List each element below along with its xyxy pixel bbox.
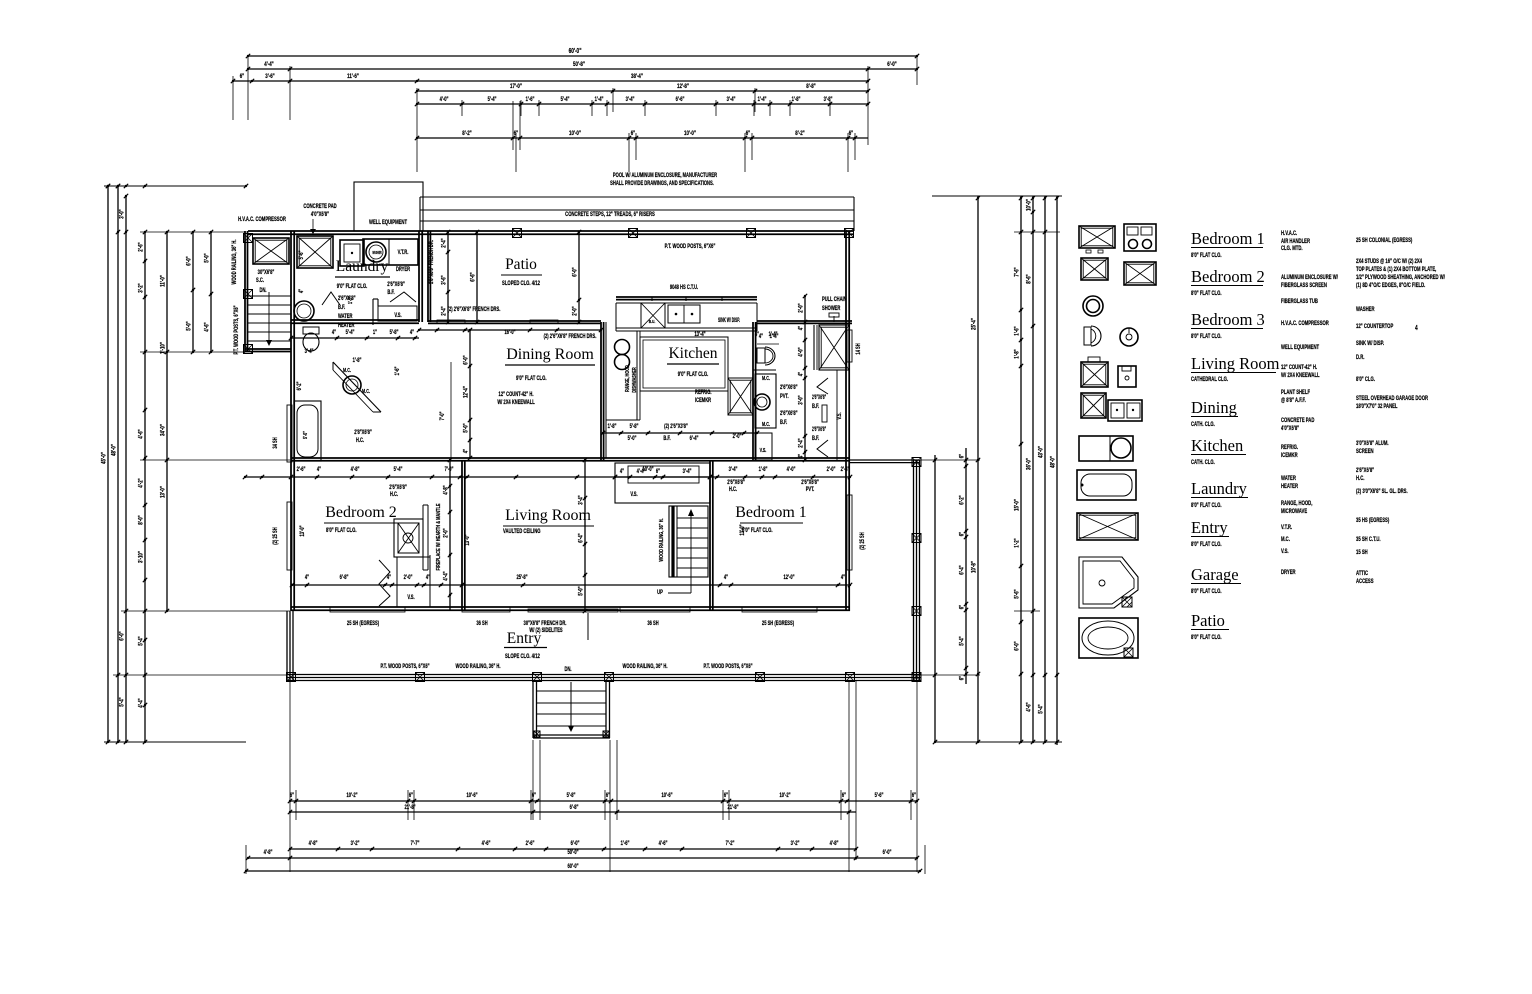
svg-text:6": 6" — [240, 73, 245, 80]
svg-text:2'-4": 2'-4" — [441, 238, 448, 248]
svg-text:Bedroom 1: Bedroom 1 — [1191, 229, 1265, 248]
svg-text:(2) 3'0"X6'8" SL. GL. DRS.: (2) 3'0"X6'8" SL. GL. DRS. — [1356, 488, 1408, 495]
svg-text:Dining Room: Dining Room — [506, 346, 594, 363]
svg-text:12" COUNTERTOP: 12" COUNTERTOP — [1356, 323, 1394, 330]
svg-text:V.S.: V.S. — [394, 312, 402, 319]
svg-text:Entry: Entry — [1191, 518, 1228, 537]
svg-text:B.F.: B.F. — [812, 435, 820, 442]
svg-text:3'-4": 3'-4" — [578, 495, 585, 505]
svg-text:4'0"X6'8": 4'0"X6'8" — [311, 211, 330, 218]
svg-text:1'-6": 1'-6" — [394, 366, 401, 375]
svg-text:H.C.: H.C. — [356, 437, 365, 444]
svg-text:Laundry: Laundry — [336, 258, 389, 275]
svg-text:(1) 8D 4"O/C EDGES, 8"O/C FIEL: (1) 8D 4"O/C EDGES, 8"O/C FIELD. — [1356, 282, 1426, 289]
svg-text:RANGE, HOOD,: RANGE, HOOD, — [624, 364, 630, 392]
svg-text:4'-4": 4'-4" — [443, 571, 450, 581]
svg-text:6": 6" — [724, 792, 729, 799]
svg-text:6": 6" — [606, 792, 611, 799]
svg-text:V.S.: V.S. — [407, 594, 415, 601]
svg-text:4'-6": 4'-6" — [659, 840, 668, 847]
svg-text:ALUMINUM ENCLOSURE W/: ALUMINUM ENCLOSURE W/ — [1281, 274, 1338, 281]
svg-text:45'-0": 45'-0" — [101, 452, 108, 464]
svg-text:3'-2": 3'-2" — [791, 840, 800, 847]
svg-text:6": 6" — [959, 675, 966, 680]
svg-text:Kitchen: Kitchen — [1191, 436, 1243, 455]
svg-text:PVT.: PVT. — [780, 393, 789, 400]
svg-text:V.S.: V.S. — [630, 491, 638, 498]
svg-text:5'-4": 5'-4" — [488, 96, 497, 103]
svg-text:6'-0": 6'-0" — [1014, 641, 1021, 651]
svg-text:3'-6": 3'-6" — [441, 275, 448, 285]
svg-text:B.F.: B.F. — [812, 403, 820, 410]
svg-text:ATTIC: ATTIC — [1356, 570, 1368, 577]
svg-text:5'-4": 5'-4" — [394, 466, 403, 473]
svg-text:H.C.: H.C. — [390, 491, 399, 498]
svg-text:2'-4": 2'-4" — [798, 438, 805, 448]
svg-text:2'-4": 2'-4" — [441, 306, 448, 316]
svg-text:6": 6" — [631, 130, 636, 137]
svg-text:3'-4": 3'-4" — [305, 348, 314, 355]
svg-text:M.C.: M.C. — [1281, 536, 1290, 543]
svg-text:B.U.: B.U. — [649, 318, 656, 324]
svg-text:AIR HANDLER: AIR HANDLER — [1281, 238, 1310, 245]
svg-text:6'-2": 6'-2" — [296, 381, 303, 390]
svg-text:8'0" FLAT CLG.: 8'0" FLAT CLG. — [1191, 290, 1222, 297]
svg-text:7'-6": 7'-6" — [1014, 267, 1021, 277]
svg-text:6'-0": 6'-0" — [887, 61, 897, 68]
svg-text:6": 6" — [532, 792, 537, 799]
svg-text:1'-8": 1'-8" — [353, 357, 362, 364]
svg-text:10'-2": 10'-2" — [346, 792, 358, 799]
svg-text:Kitchen: Kitchen — [668, 345, 717, 362]
svg-text:Patio: Patio — [1191, 611, 1225, 630]
svg-text:4'-6": 4'-6" — [482, 840, 491, 847]
svg-text:60'-0": 60'-0" — [569, 48, 582, 55]
svg-text:3'0"X6'8" ALUM.: 3'0"X6'8" ALUM. — [1356, 440, 1389, 447]
svg-text:3'-0": 3'-0" — [798, 395, 805, 405]
svg-text:ICEMKR: ICEMKR — [695, 397, 711, 404]
svg-text:S.C.: S.C. — [256, 277, 264, 284]
svg-text:B.F.: B.F. — [780, 419, 788, 426]
svg-text:4": 4" — [841, 574, 846, 581]
svg-text:3'-4": 3'-4" — [727, 96, 736, 103]
svg-text:P.T. WOOD POSTS, 6"X6": P.T. WOOD POSTS, 6"X6" — [703, 663, 753, 670]
svg-text:5'-4": 5'-4" — [346, 329, 355, 336]
svg-text:2'6"X6'8": 2'6"X6'8" — [1356, 467, 1375, 474]
svg-text:8'0" FLAT CLG.: 8'0" FLAT CLG. — [1191, 541, 1222, 548]
svg-text:WELL EQUIPMENT: WELL EQUIPMENT — [1281, 344, 1320, 351]
svg-text:35 SH C.T.U.: 35 SH C.T.U. — [1356, 536, 1381, 543]
svg-text:25 SH (EGRESS): 25 SH (EGRESS) — [762, 620, 794, 627]
svg-text:1'-6": 1'-6" — [526, 96, 535, 103]
svg-text:43'-0": 43'-0" — [1038, 446, 1045, 458]
svg-text:TOP PLATES & (1) 2X4 BOTTOM PL: TOP PLATES & (1) 2X4 BOTTOM PLATE, — [1356, 266, 1437, 273]
svg-text:SHALL PROVIDE DRAWINGS, AND SP: SHALL PROVIDE DRAWINGS, AND SPECIFICATIO… — [610, 180, 714, 187]
svg-text:2'6"X6'8": 2'6"X6'8" — [801, 479, 819, 486]
svg-text:16'-0": 16'-0" — [504, 329, 516, 336]
svg-text:H.V.A.C.: H.V.A.C. — [1281, 230, 1298, 237]
svg-text:6": 6" — [959, 531, 966, 536]
svg-text:8'-0": 8'-0" — [138, 515, 145, 525]
svg-text:H.C.: H.C. — [1356, 475, 1365, 482]
svg-text:5'-6": 5'-6" — [875, 792, 884, 799]
svg-text:2X4 STUDS @ 16" O/C W/ (2) 2X4: 2X4 STUDS @ 16" O/C W/ (2) 2X4 — [1356, 258, 1422, 265]
svg-text:D.R.: D.R. — [1356, 354, 1365, 361]
svg-text:2'6"X6'8": 2'6"X6'8" — [727, 479, 745, 486]
svg-text:3'-8": 3'-8" — [824, 96, 833, 103]
svg-text:2'-6": 2'-6" — [138, 242, 145, 252]
svg-text:25'-4": 25'-4" — [971, 318, 978, 330]
svg-text:12'-4": 12'-4" — [463, 386, 470, 398]
svg-text:34 SH: 34 SH — [272, 437, 279, 449]
svg-text:6": 6" — [842, 792, 847, 799]
svg-text:V.S.: V.S. — [760, 447, 767, 453]
svg-text:CONCRETE PAD: CONCRETE PAD — [1281, 417, 1315, 424]
svg-text:4'-8": 4'-8" — [351, 466, 360, 473]
svg-text:6": 6" — [959, 604, 966, 609]
svg-text:1'-8": 1'-8" — [792, 96, 801, 103]
svg-text:36 SH: 36 SH — [647, 620, 659, 627]
svg-text:V.T.R.: V.T.R. — [398, 249, 409, 256]
svg-text:H.V.A.C. COMPRESSOR: H.V.A.C. COMPRESSOR — [238, 216, 286, 223]
svg-text:B.F.: B.F. — [663, 435, 671, 442]
svg-text:(2) 25 SH: (2) 25 SH — [859, 532, 866, 550]
svg-text:RANGE, HOOD,: RANGE, HOOD, — [1281, 500, 1313, 507]
svg-text:ACCESS: ACCESS — [1356, 578, 1374, 585]
svg-text:4'-2": 4'-2" — [138, 478, 145, 488]
svg-text:4": 4" — [463, 448, 470, 453]
svg-text:Patio: Patio — [505, 256, 537, 273]
svg-text:6'-4": 6'-4" — [578, 533, 585, 543]
svg-text:2'6"X6'8": 2'6"X6'8" — [812, 426, 826, 433]
svg-text:3'-4": 3'-4" — [683, 468, 692, 475]
svg-text:4'-6": 4'-6" — [138, 429, 145, 439]
svg-text:6'-0": 6'-0" — [572, 267, 579, 277]
svg-text:2'-0": 2'-0" — [733, 433, 742, 440]
svg-text:10'-0": 10'-0" — [642, 466, 654, 473]
svg-text:P.T. WOOD POSTS, 6"X6": P.T. WOOD POSTS, 6"X6" — [665, 243, 716, 250]
svg-text:5'-8": 5'-8" — [630, 423, 639, 430]
svg-text:25 SH (EGRESS): 25 SH (EGRESS) — [347, 620, 379, 627]
svg-text:1'-2": 1'-2" — [1014, 538, 1021, 548]
svg-text:6": 6" — [409, 792, 414, 799]
svg-text:2'-0": 2'-0" — [798, 303, 805, 313]
svg-text:50'-0": 50'-0" — [567, 849, 579, 856]
svg-text:DRYER: DRYER — [396, 266, 410, 273]
svg-text:1'-6": 1'-6" — [1014, 326, 1021, 336]
svg-text:4": 4" — [759, 333, 764, 340]
svg-text:B.F.: B.F. — [338, 304, 346, 311]
svg-text:WELL EQUIPMENT: WELL EQUIPMENT — [369, 219, 408, 226]
svg-text:SLOPE CLG. 4/12: SLOPE CLG. 4/12 — [505, 653, 540, 660]
svg-text:6": 6" — [290, 792, 295, 799]
svg-text:2'-6": 2'-6" — [297, 466, 306, 473]
svg-text:1'-8": 1'-8" — [608, 423, 617, 430]
svg-text:STEEL OVERHEAD GARAGE DOOR: STEEL OVERHEAD GARAGE DOOR — [1356, 395, 1428, 402]
svg-text:36 SH: 36 SH — [476, 620, 488, 627]
svg-text:2'-0": 2'-0" — [404, 574, 413, 581]
svg-text:13'-0": 13'-0" — [299, 525, 306, 537]
svg-text:10'-0": 10'-0" — [569, 130, 581, 137]
svg-text:34'-0": 34'-0" — [160, 424, 167, 436]
svg-text:2'-4": 2'-4" — [841, 466, 850, 473]
svg-text:18'0"X7'0" 32 PANEL: 18'0"X7'0" 32 PANEL — [1356, 403, 1398, 410]
svg-text:Dining: Dining — [1191, 398, 1237, 417]
svg-text:9'0" FLAT CLG.: 9'0" FLAT CLG. — [516, 375, 547, 382]
svg-text:30"X6'8" FRENCH DR.: 30"X6'8" FRENCH DR. — [524, 620, 567, 627]
svg-text:5'-4": 5'-4" — [138, 636, 145, 646]
svg-text:12" COUNT-42" H.: 12" COUNT-42" H. — [499, 391, 534, 398]
svg-text:UP: UP — [657, 589, 663, 596]
svg-text:H.V.A.C. COMPRESSOR: H.V.A.C. COMPRESSOR — [1281, 320, 1329, 327]
svg-text:M.C.: M.C. — [362, 388, 370, 394]
svg-text:4'-0": 4'-0" — [787, 466, 796, 473]
svg-text:8'0" FLAT CLG.: 8'0" FLAT CLG. — [1191, 502, 1222, 509]
svg-text:4'-8": 4'-8" — [309, 840, 318, 847]
svg-text:48'-0": 48'-0" — [111, 444, 118, 456]
svg-text:10'-6": 10'-6" — [466, 792, 478, 799]
svg-text:WASHER: WASHER — [372, 250, 382, 255]
svg-text:21'-8": 21'-8" — [727, 804, 739, 811]
svg-text:4": 4" — [620, 468, 625, 475]
svg-text:4": 4" — [724, 574, 729, 581]
svg-text:2'6"X6'8": 2'6"X6'8" — [780, 410, 798, 417]
svg-text:DISHWASHER: DISHWASHER — [631, 367, 637, 393]
svg-text:5'-6": 5'-6" — [1014, 589, 1021, 599]
svg-text:2'6"X6'8": 2'6"X6'8" — [387, 281, 405, 288]
svg-text:4'-0": 4'-0" — [440, 96, 449, 103]
svg-text:12'-8": 12'-8" — [677, 83, 689, 90]
svg-text:WASHER: WASHER — [1356, 306, 1375, 313]
svg-text:6'-6": 6'-6" — [676, 96, 685, 103]
svg-text:8'-2": 8'-2" — [462, 130, 472, 137]
svg-text:6'-6": 6'-6" — [470, 272, 477, 282]
svg-text:13'-4": 13'-4" — [694, 331, 706, 338]
svg-text:5'-4": 5'-4" — [959, 636, 966, 646]
svg-text:CATHEDRAL CLG.: CATHEDRAL CLG. — [1191, 376, 1228, 383]
svg-text:50'-8": 50'-8" — [573, 61, 585, 68]
svg-text:6": 6" — [656, 468, 661, 475]
svg-text:36'-0": 36'-0" — [1026, 458, 1033, 470]
svg-text:7'-0": 7'-0" — [445, 466, 454, 473]
svg-text:WOOD RAILING, 36" H.: WOOD RAILING, 36" H. — [658, 518, 665, 562]
svg-text:MICROWAVE: MICROWAVE — [1281, 508, 1308, 515]
svg-text:DN.: DN. — [564, 666, 571, 673]
svg-text:7'-7": 7'-7" — [411, 840, 420, 847]
svg-text:4'-4": 4'-4" — [264, 61, 274, 68]
svg-text:WOOD RAILING, 36" H.: WOOD RAILING, 36" H. — [456, 663, 501, 670]
svg-text:6": 6" — [849, 130, 854, 137]
svg-text:13'-0": 13'-0" — [464, 534, 471, 546]
svg-text:SINK W/ DISP.: SINK W/ DISP. — [1356, 340, 1384, 347]
svg-text:2'6"X6'8": 2'6"X6'8" — [389, 484, 407, 491]
svg-text:2'-0": 2'-0" — [572, 306, 579, 316]
svg-text:15'-0": 15'-0" — [1014, 499, 1021, 511]
svg-text:H.C.: H.C. — [729, 486, 738, 493]
svg-text:4": 4" — [410, 329, 415, 336]
svg-text:M.C.: M.C. — [343, 367, 351, 373]
svg-text:7'-2": 7'-2" — [726, 840, 735, 847]
svg-text:8'-8": 8'-8" — [806, 83, 816, 90]
svg-text:10'-0": 10'-0" — [684, 130, 696, 137]
svg-text:9048 HS C.T.U.: 9048 HS C.T.U. — [670, 284, 699, 291]
svg-text:4": 4" — [305, 574, 310, 581]
svg-text:DN.: DN. — [259, 287, 266, 294]
svg-text:@ 8'8" A.F.F.: @ 8'8" A.F.F. — [1281, 397, 1306, 404]
svg-text:3'-2": 3'-2" — [138, 283, 145, 293]
svg-text:35 HS (EGRESS): 35 HS (EGRESS) — [1356, 517, 1389, 524]
svg-text:M.C.: M.C. — [762, 375, 770, 381]
svg-text:(2) 2'6"X6'8" FRENCH DRS.: (2) 2'6"X6'8" FRENCH DRS. — [544, 333, 597, 340]
svg-text:4": 4" — [798, 371, 805, 376]
svg-text:1/2" PLYWOOD SHEATHING, ANCHOR: 1/2" PLYWOOD SHEATHING, ANCHORED W/ — [1356, 274, 1445, 281]
svg-text:2'-6": 2'-6" — [526, 840, 535, 847]
svg-text:6'-2": 6'-2" — [959, 495, 966, 505]
svg-text:Bedroom 3: Bedroom 3 — [1191, 310, 1265, 329]
svg-text:12" COUNT-42" H.: 12" COUNT-42" H. — [1281, 364, 1317, 371]
svg-text:WOOD RAILING, 36" H.: WOOD RAILING, 36" H. — [231, 239, 238, 284]
svg-text:Bedroom 2: Bedroom 2 — [1191, 267, 1265, 286]
svg-text:8'0" FLAT CLG.: 8'0" FLAT CLG. — [326, 527, 357, 534]
svg-text:Living Room: Living Room — [1191, 354, 1280, 373]
svg-text:B.F.: B.F. — [387, 289, 395, 296]
svg-text:4'-8": 4'-8" — [830, 840, 839, 847]
svg-text:11'-0": 11'-0" — [160, 275, 167, 287]
svg-text:HEATER: HEATER — [338, 322, 355, 329]
svg-text:4": 4" — [426, 574, 431, 581]
svg-text:CONCRETE PAD: CONCRETE PAD — [303, 203, 337, 210]
svg-text:PVT.: PVT. — [806, 486, 815, 493]
svg-text:SLOPED CLG. 4/12: SLOPED CLG. 4/12 — [502, 280, 540, 287]
svg-text:1": 1" — [373, 329, 378, 336]
svg-text:14 SH: 14 SH — [855, 343, 862, 355]
svg-text:4'-0": 4'-0" — [798, 347, 805, 357]
svg-text:CLG. MTD.: CLG. MTD. — [1281, 245, 1303, 252]
svg-text:2'8"X6'8" FRENCH DR.: 2'8"X6'8" FRENCH DR. — [428, 240, 435, 284]
svg-text:5'-0": 5'-0" — [302, 431, 308, 439]
svg-text:4": 4" — [298, 288, 305, 293]
svg-text:5'-0": 5'-0" — [186, 321, 193, 331]
svg-text:(2) 25 SH: (2) 25 SH — [272, 527, 279, 545]
svg-text:4": 4" — [387, 574, 392, 581]
svg-text:CONCRETE STEPS, 12" TREADS, 6": CONCRETE STEPS, 12" TREADS, 6" RISERS — [565, 211, 655, 218]
svg-text:5'-4": 5'-4" — [119, 697, 126, 707]
svg-text:17'-0": 17'-0" — [510, 83, 522, 90]
svg-text:6'-8": 6'-8" — [340, 574, 349, 581]
svg-text:5'-0": 5'-0" — [578, 586, 585, 596]
svg-text:6'-0": 6'-0" — [883, 849, 892, 856]
svg-text:3'-4": 3'-4" — [729, 466, 738, 473]
svg-text:4": 4" — [798, 453, 805, 458]
svg-text:6": 6" — [912, 792, 917, 799]
svg-text:1'-8": 1'-8" — [1014, 349, 1021, 359]
svg-text:Bedroom 1: Bedroom 1 — [735, 504, 807, 521]
svg-text:6": 6" — [959, 453, 966, 458]
svg-text:Garage: Garage — [1191, 565, 1239, 584]
svg-text:3'-2": 3'-2" — [351, 840, 360, 847]
svg-text:21'-8": 21'-8" — [404, 804, 416, 811]
svg-text:8'-2": 8'-2" — [795, 130, 805, 137]
svg-text:60'-0": 60'-0" — [567, 863, 579, 870]
svg-text:PLANT SHELF: PLANT SHELF — [1281, 389, 1311, 396]
svg-text:8'-6": 8'-6" — [1026, 274, 1033, 284]
svg-text:4'-6": 4'-6" — [1026, 702, 1033, 712]
svg-text:6'-4": 6'-4" — [959, 565, 966, 575]
svg-text:WOOD RAILING, 36" H.: WOOD RAILING, 36" H. — [623, 663, 668, 670]
svg-text:5'-8": 5'-8" — [390, 329, 399, 336]
svg-text:HEATER: HEATER — [1281, 483, 1298, 490]
svg-text:8'0" CLG.: 8'0" CLG. — [1356, 376, 1375, 383]
svg-text:1'-4": 1'-4" — [595, 96, 604, 103]
svg-text:10'-6": 10'-6" — [661, 792, 673, 799]
svg-text:4'-8": 4'-8" — [264, 849, 273, 856]
svg-text:1'-4": 1'-4" — [758, 96, 767, 103]
svg-text:2'6"X6'8": 2'6"X6'8" — [812, 394, 826, 401]
svg-text:11'-6": 11'-6" — [347, 73, 359, 80]
svg-text:FIREPLACE W/ HEARTH & MANTLE: FIREPLACE W/ HEARTH & MANTLE — [435, 503, 442, 571]
svg-text:Laundry: Laundry — [1191, 479, 1248, 498]
svg-text:V.T.R.: V.T.R. — [1281, 524, 1293, 531]
svg-text:5'-0": 5'-0" — [204, 253, 211, 263]
svg-text:10'-0": 10'-0" — [1026, 199, 1033, 211]
svg-text:W/ 2X4 KNEEWALL: W/ 2X4 KNEEWALL — [1281, 372, 1320, 379]
svg-text:6": 6" — [746, 130, 751, 137]
svg-text:4'-6": 4'-6" — [204, 322, 211, 332]
svg-text:6'-0": 6'-0" — [463, 355, 470, 365]
svg-text:4: 4 — [1415, 325, 1418, 332]
svg-text:W/ 2X4 KNEEWALL: W/ 2X4 KNEEWALL — [497, 399, 534, 406]
svg-text:CATH. CLG.: CATH. CLG. — [1191, 421, 1215, 428]
svg-text:5'-6": 5'-6" — [298, 250, 305, 259]
svg-text:2'-0": 2'-0" — [827, 466, 836, 473]
svg-text:3'-0": 3'-0" — [119, 209, 126, 219]
svg-text:30"X6'8": 30"X6'8" — [258, 269, 275, 276]
svg-text:6'-0": 6'-0" — [571, 840, 580, 847]
svg-text:1'-8": 1'-8" — [759, 466, 768, 473]
svg-text:(2) 2'6"X3'8": (2) 2'6"X3'8" — [664, 423, 688, 430]
svg-text:Bedroom 2: Bedroom 2 — [325, 504, 397, 521]
svg-text:4": 4" — [332, 329, 337, 336]
svg-text:SCREEN: SCREEN — [1356, 448, 1374, 455]
svg-text:Entry: Entry — [507, 630, 542, 647]
svg-text:POOL W/ ALUMINUM ENCLOSURE, MA: POOL W/ ALUMINUM ENCLOSURE, MANUFACTURER — [613, 172, 717, 179]
svg-text:FIBERGLASS TUB: FIBERGLASS TUB — [1281, 298, 1318, 305]
svg-text:REFRIG.: REFRIG. — [1281, 444, 1299, 451]
svg-text:1'-2": 1'-2" — [347, 296, 353, 304]
svg-text:48'-0": 48'-0" — [1050, 456, 1057, 468]
svg-text:10'-2": 10'-2" — [779, 792, 791, 799]
svg-text:8'0" FLAT CLG.: 8'0" FLAT CLG. — [1191, 634, 1222, 641]
svg-text:5'-0": 5'-0" — [628, 435, 637, 442]
svg-text:1'-6": 1'-6" — [621, 840, 630, 847]
svg-text:4": 4" — [798, 325, 805, 330]
svg-text:SINK W/ DISP.: SINK W/ DISP. — [718, 317, 740, 324]
svg-text:12'-0": 12'-0" — [783, 574, 795, 581]
svg-text:9'0" FLAT CLG.: 9'0" FLAT CLG. — [678, 371, 709, 378]
svg-text:M.C.: M.C. — [762, 421, 770, 427]
svg-text:2'6"X6'8": 2'6"X6'8" — [780, 384, 798, 391]
svg-text:4'-4": 4'-4" — [138, 698, 145, 708]
svg-text:FIBERGLASS SCREEN: FIBERGLASS SCREEN — [1281, 282, 1327, 289]
svg-text:8'0" FLAT CLG.: 8'0" FLAT CLG. — [1191, 252, 1222, 259]
svg-text:15 SH: 15 SH — [1356, 549, 1368, 556]
svg-text:10'-8": 10'-8" — [971, 561, 978, 573]
svg-text:8'0" FLAT CLG.: 8'0" FLAT CLG. — [1191, 333, 1222, 340]
svg-text:25 SH COLONIAL (EGRESS): 25 SH COLONIAL (EGRESS) — [1356, 237, 1413, 244]
svg-text:4'-8": 4'-8" — [443, 485, 450, 495]
svg-text:REFRIG.: REFRIG. — [695, 389, 712, 396]
svg-text:3'-10": 3'-10" — [138, 551, 145, 563]
